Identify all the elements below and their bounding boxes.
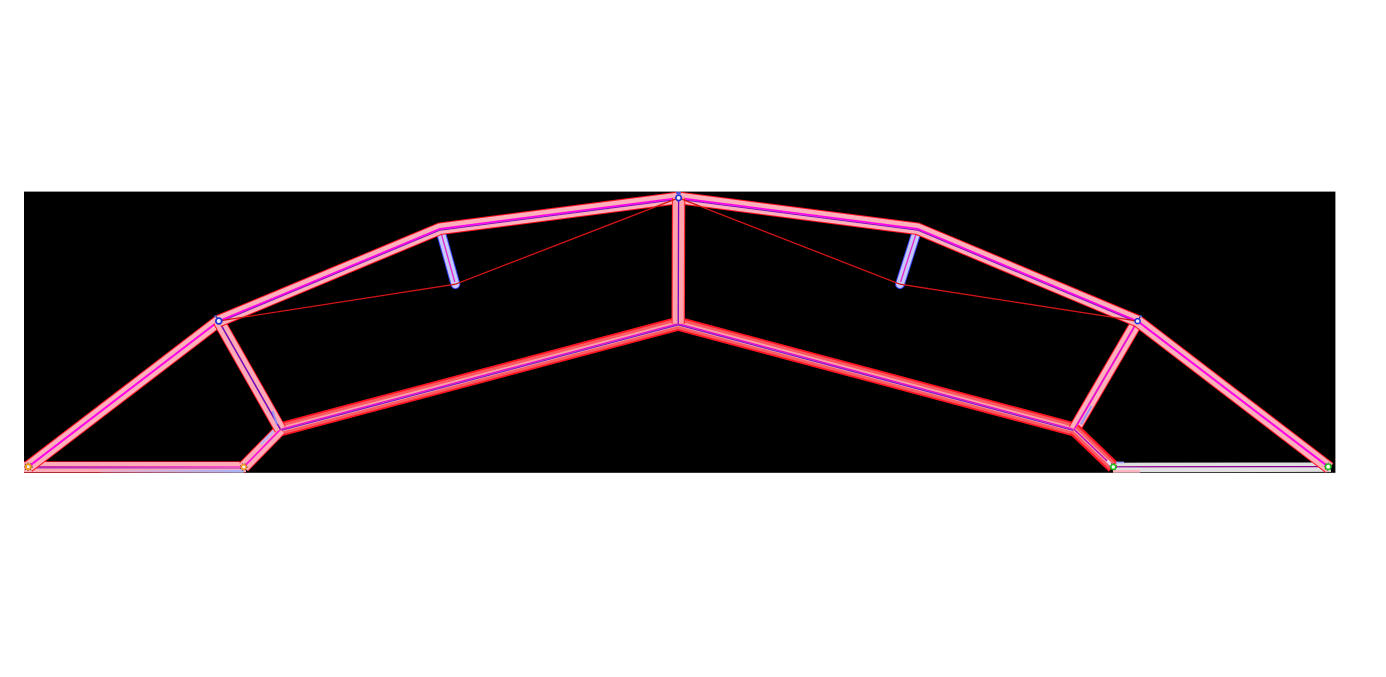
member N10-N11 (red) — [1074, 430, 1113, 467]
black canvas viewport — [24, 192, 1335, 473]
node N1 (anchor, orange) — [25, 463, 33, 471]
blue dot near N9 — [1140, 315, 1142, 317]
blue accent near N10 — [1081, 406, 1092, 424]
blue stub above apex node N5 — [676, 192, 681, 195]
diagonal member N1-N3 — [28, 321, 219, 467]
long diagonal member N9-N12 — [1138, 321, 1330, 468]
blue dot near N3 — [215, 315, 217, 317]
hanger member R (lavender) — [900, 229, 918, 284]
vertical member N5-N6 — [672, 198, 686, 324]
node N11 (green) — [1110, 463, 1117, 470]
node N3 (blue) — [216, 318, 222, 324]
node N9 (blue) — [1135, 319, 1140, 324]
lavender tip near N11 — [1108, 461, 1112, 466]
blue accent near N4 left — [273, 411, 278, 425]
blue accent near N4 lower — [261, 431, 274, 444]
cable Ltip-N5 — [455, 198, 678, 284]
bottom chords N4-N6-N10 (red) — [280, 324, 1074, 431]
cable Rtip-N9 — [900, 284, 1138, 321]
node N2 (anchor, orange) — [240, 464, 247, 471]
hanger member L (lavender) — [440, 229, 456, 284]
blue tick right of N11 — [1116, 461, 1124, 463]
cable N5-Rtip — [679, 198, 900, 284]
pink smear under deck near N11 — [1113, 470, 1140, 473]
diagonal member N10-N9 — [1074, 321, 1137, 429]
diagonal member N2-N4 — [244, 429, 281, 467]
cable N3-Ltip — [219, 284, 456, 321]
diagonal member N3-N4 — [219, 321, 281, 429]
bottom chord member N1-N2 — [24, 467, 246, 471]
deck member N11-N12 (gray) — [1113, 462, 1331, 472]
top chords N3-N7-N5-N8-N9 — [219, 198, 1138, 323]
node N12 (green) — [1325, 463, 1332, 470]
node N5 apex (blue) — [676, 195, 681, 200]
